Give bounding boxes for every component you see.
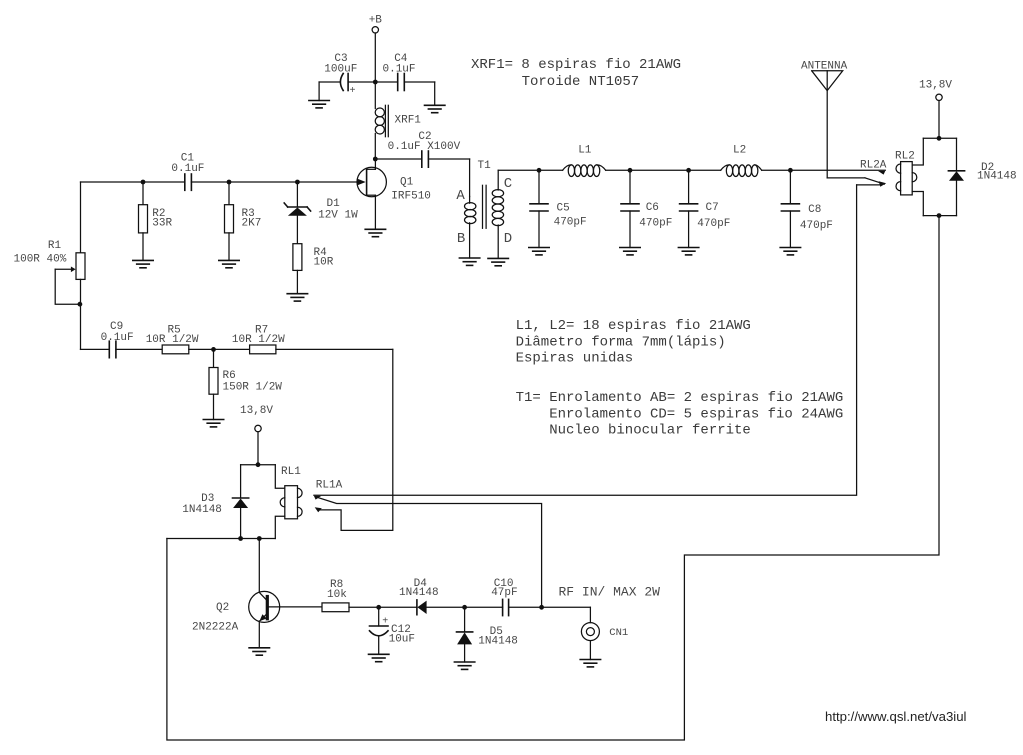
svg-text:Q1: Q1 xyxy=(400,177,414,189)
svg-text:470pF: 470pF xyxy=(639,217,672,229)
svg-text:150R 1/2W: 150R 1/2W xyxy=(223,382,283,394)
svg-text:0.1uF X100V: 0.1uF X100V xyxy=(388,141,461,153)
svg-text:0.1uF: 0.1uF xyxy=(101,332,134,344)
svg-text:T1= Enrolamento AB= 2 espiras: T1= Enrolamento AB= 2 espiras fio 21AWG xyxy=(516,390,844,406)
svg-text:RL1: RL1 xyxy=(281,466,301,478)
svg-text:1N4148: 1N4148 xyxy=(182,504,222,516)
svg-text:13,8V: 13,8V xyxy=(919,80,952,92)
svg-text:L1: L1 xyxy=(578,145,592,157)
svg-text:XRF1= 8 espiras fio 21AWG: XRF1= 8 espiras fio 21AWG xyxy=(471,57,681,73)
svg-text:13,8V: 13,8V xyxy=(240,405,273,417)
svg-text:33R: 33R xyxy=(152,218,172,230)
svg-text:Toroide NT1057: Toroide NT1057 xyxy=(522,74,640,90)
svg-text:C8: C8 xyxy=(808,204,821,216)
svg-text:R1: R1 xyxy=(48,240,62,252)
svg-text:L1, L2= 18 espiras fio 21AWG: L1, L2= 18 espiras fio 21AWG xyxy=(516,318,751,334)
svg-text:470pF: 470pF xyxy=(554,216,587,228)
svg-text:+B: +B xyxy=(369,15,383,27)
svg-text:1N4148: 1N4148 xyxy=(399,587,439,599)
svg-text:C7: C7 xyxy=(706,202,719,214)
svg-text:C6: C6 xyxy=(646,202,659,214)
svg-text:Espiras unidas: Espiras unidas xyxy=(516,351,634,367)
svg-text:Enrolamento CD= 5 espiras fio: Enrolamento CD= 5 espiras fio 24AWG xyxy=(549,406,843,422)
svg-text:D: D xyxy=(504,231,512,247)
svg-text:Q2: Q2 xyxy=(216,602,229,614)
svg-text:Nucleo binocular ferrite: Nucleo binocular ferrite xyxy=(549,423,751,439)
svg-text:10uF: 10uF xyxy=(389,634,415,646)
svg-text:2K7: 2K7 xyxy=(242,218,262,230)
svg-text:http://www.qsl.net/va3iul: http://www.qsl.net/va3iul xyxy=(825,709,967,724)
svg-text:T1: T1 xyxy=(478,160,492,172)
svg-text:B: B xyxy=(457,231,465,247)
svg-text:100uF: 100uF xyxy=(324,64,357,76)
svg-text:10R: 10R xyxy=(314,257,334,269)
svg-text:A: A xyxy=(456,188,465,204)
svg-text:470pF: 470pF xyxy=(697,218,730,230)
svg-text:10R 1/2W: 10R 1/2W xyxy=(146,334,199,346)
svg-text:IRF510: IRF510 xyxy=(391,190,431,202)
svg-text:12V 1W: 12V 1W xyxy=(318,209,358,221)
svg-text:Diâmetro forma 7mm(lápis): Diâmetro forma 7mm(lápis) xyxy=(516,334,726,350)
svg-text:2N2222A: 2N2222A xyxy=(192,622,239,634)
svg-text:1N4148: 1N4148 xyxy=(977,171,1017,183)
svg-text:C: C xyxy=(504,176,512,192)
svg-text:RL2: RL2 xyxy=(895,151,915,163)
svg-text:XRF1: XRF1 xyxy=(395,115,422,127)
svg-text:RL1A: RL1A xyxy=(316,480,343,492)
svg-text:470pF: 470pF xyxy=(800,220,833,232)
svg-text:0.1uF: 0.1uF xyxy=(383,64,416,76)
svg-text:+: + xyxy=(382,617,388,628)
svg-text:RF IN/ MAX 2W: RF IN/ MAX 2W xyxy=(559,585,661,600)
svg-text:10k: 10k xyxy=(327,589,347,601)
svg-text:D1: D1 xyxy=(327,198,341,210)
svg-text:RL2A: RL2A xyxy=(860,160,887,172)
svg-text:1N4148: 1N4148 xyxy=(478,635,518,647)
svg-text:10R 1/2W: 10R 1/2W xyxy=(232,334,285,346)
svg-text:R6: R6 xyxy=(223,370,236,382)
svg-text:100R 40%: 100R 40% xyxy=(14,254,67,266)
svg-text:CN1: CN1 xyxy=(609,627,628,639)
svg-text:47pF: 47pF xyxy=(491,587,517,599)
svg-text:L2: L2 xyxy=(733,145,746,157)
svg-text:0.1uF: 0.1uF xyxy=(171,163,204,175)
svg-text:C5: C5 xyxy=(557,203,570,215)
svg-text:+: + xyxy=(350,86,356,97)
